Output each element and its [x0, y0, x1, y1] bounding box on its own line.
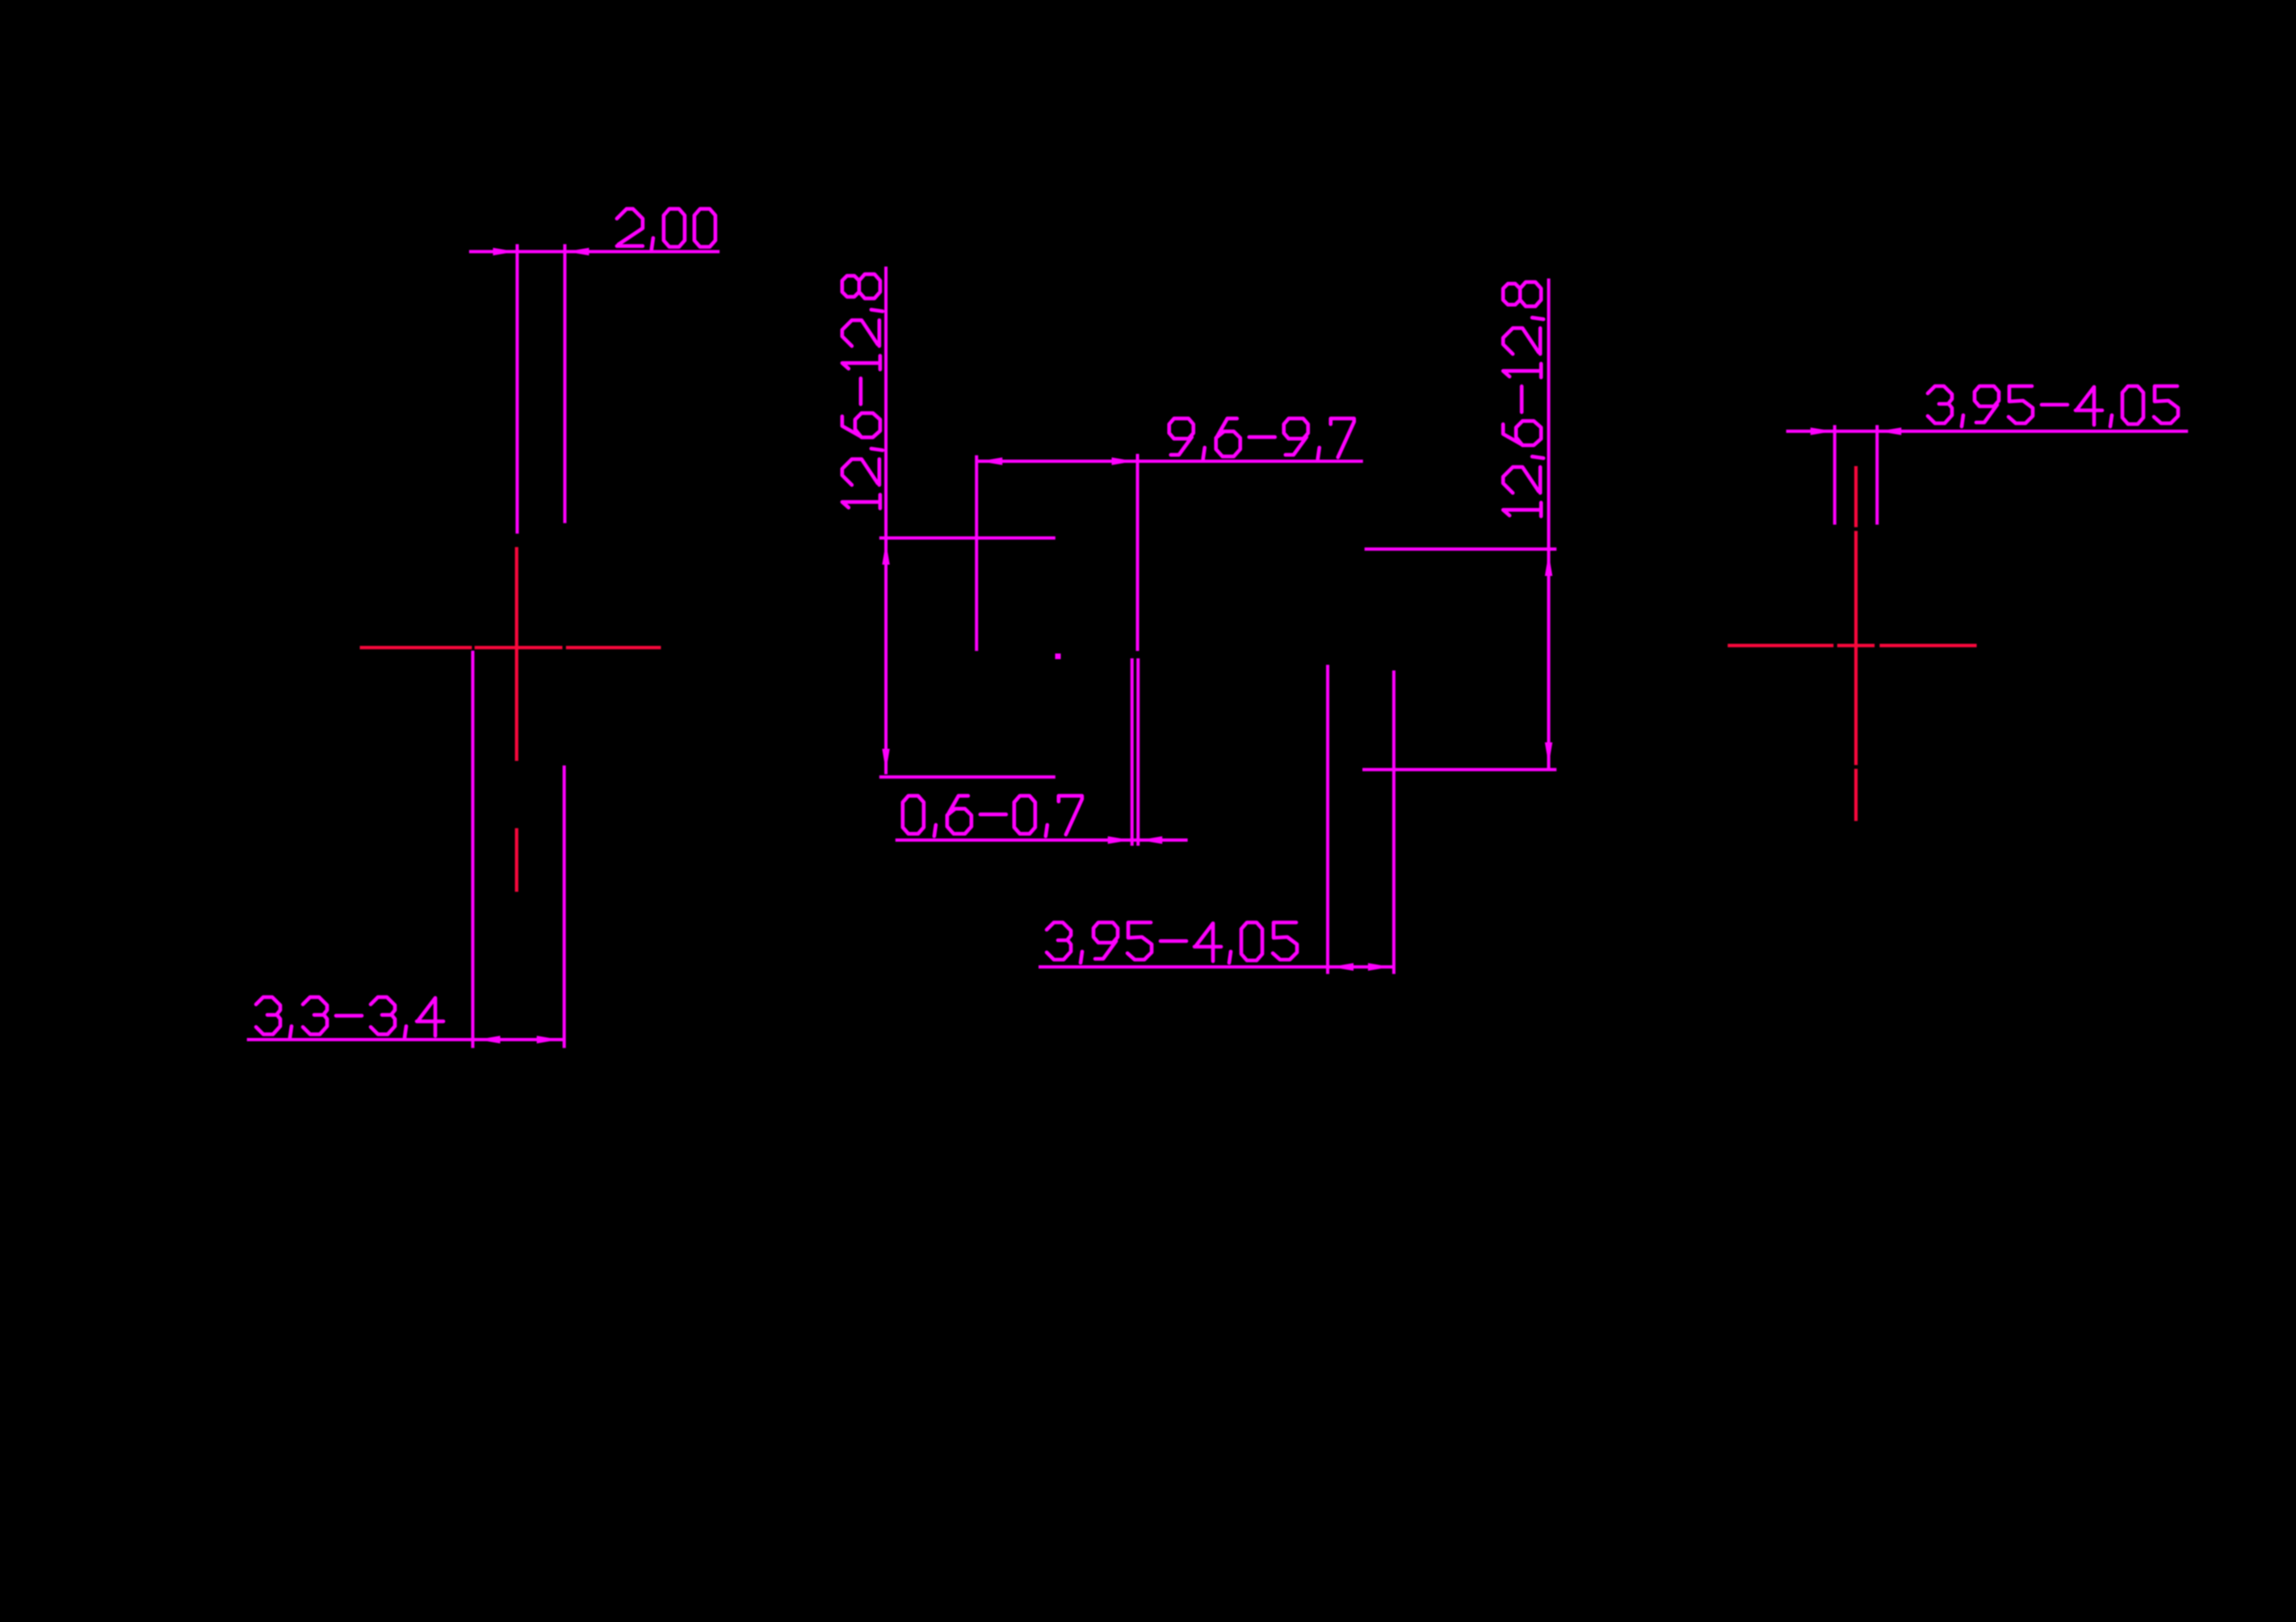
slot right line (0.6-0.7 pair) — [1136, 658, 1140, 846]
dimension 3.95-4.05 center : right arrow — [1368, 963, 1391, 970]
dimension 12.6-12.8 right : vertical dim line — [1547, 279, 1551, 768]
dimension 3.95-4.05 center : text — [1047, 922, 1297, 963]
dimension 12.6-12.8 left : text (vertical) — [842, 274, 883, 508]
slot left line (0.6-0.7 pair) — [1131, 658, 1134, 846]
dimension 12.6-12.8 left : vertical dim line — [884, 267, 888, 775]
dimension 3.95-4.05 right : left arrow — [1811, 427, 1833, 435]
center top horizontal line — [879, 536, 1056, 540]
left part centerline vertical (red) seg2 — [515, 828, 518, 892]
right part centerline vertical (red) seg3 — [1854, 769, 1857, 822]
dimension 3.95-4.05 right : left extension line — [1833, 425, 1836, 524]
left part centerline vertical (red) seg1 — [515, 547, 518, 761]
right part centerline horizontal (red) seg1 — [1727, 644, 1833, 647]
dimension 9.6-9.7 : left arrow — [980, 457, 1002, 464]
dimension 2.00 : dim line — [469, 250, 720, 254]
right part centerline vertical (red) seg2 — [1854, 531, 1857, 765]
dimension 2.00 : left extension line — [515, 244, 518, 533]
stray dot — [1056, 653, 1061, 659]
dimension 3.95-4.05 right : dim line — [1786, 430, 2189, 433]
dimension 3.95-4.05 right : text — [1928, 386, 2178, 427]
dimension 3.95-4.05 right : right extension line — [1875, 425, 1878, 524]
dimension 3.95-4.05 center : left arrow — [1331, 963, 1354, 970]
left part centerline horizontal (red) seg1 — [360, 646, 472, 649]
dimension 9.6-9.7 : dim line — [976, 460, 1363, 463]
center-right top horizontal line — [1365, 548, 1557, 551]
dimension 3.3-3.4 : left extension line — [471, 651, 474, 1048]
dimension 3.95-4.05 right : right arrow — [1878, 427, 1901, 435]
dimension 9.6-9.7 : right arrow — [1112, 457, 1135, 464]
dimension 0.6-0.7 : dim line — [896, 838, 1188, 842]
dimension 9.6-9.7 : text — [1169, 418, 1354, 459]
dimension 12.6-12.8 left : down arrow — [882, 749, 889, 771]
dimension 2.00 : left arrow — [493, 248, 515, 255]
center-right bottom horizontal line — [1362, 768, 1556, 771]
dimension 12.6-12.8 right : text (vertical) — [1503, 282, 1543, 516]
dimension 3.95-4.05 center : right extension line — [1392, 670, 1396, 974]
left part centerline horizontal (red) seg2 — [475, 646, 563, 649]
right part centerline horizontal (red) seg3 — [1879, 644, 1976, 647]
dimension 0.6-0.7 : left arrow (outside, pointing right) — [1108, 836, 1131, 843]
dimension 3.3-3.4 : right arrow — [537, 1036, 560, 1043]
dimension 2.00 : text — [617, 209, 716, 250]
dimension 3.3-3.4 : text — [256, 997, 443, 1037]
dimension 0.6-0.7 : text — [903, 796, 1082, 836]
dimension 12.6-12.8 right : up arrow — [1545, 553, 1552, 576]
dimension 12.6-12.8 left : up arrow — [882, 542, 889, 565]
left part centerline horizontal (red) seg3 — [566, 646, 661, 649]
right vertical line of 9.6-9.7 — [1136, 454, 1140, 651]
dimension 3.3-3.4 : left arrow — [477, 1036, 500, 1043]
dimension 3.95-4.05 center : left extension line — [1326, 665, 1329, 974]
dimension 3.95-4.05 center : dim line — [1039, 965, 1394, 969]
dimension 0.6-0.7 : right arrow (outside, pointing left) — [1140, 836, 1162, 843]
center bottom horizontal line — [879, 775, 1056, 779]
dimension 12.6-12.8 right : down arrow — [1545, 742, 1552, 765]
right part centerline horizontal (red) seg2 — [1837, 644, 1874, 647]
dimension 3.3-3.4 : right extension line — [563, 766, 566, 1048]
dimension 2.00 : right arrow — [566, 248, 589, 255]
center cross vertical line — [975, 456, 978, 651]
dimension 3.3-3.4 : dim line — [247, 1038, 565, 1041]
right part centerline vertical (red) seg1 — [1854, 466, 1857, 527]
dimension 2.00 : right extension line — [563, 244, 566, 523]
